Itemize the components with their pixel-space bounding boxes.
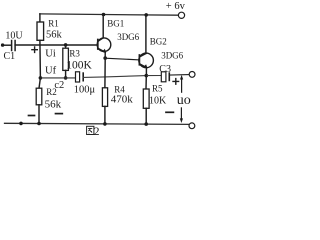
- svg-text:BG2: BG2: [150, 36, 167, 46]
- transistor Q2 emitter with arrow: [140, 64, 147, 68]
- wire bottom ground rail: [5, 123, 190, 124]
- transistor Q1 base bar: [97, 40, 99, 50]
- wire BG2 emitter down to R5: [145, 76, 147, 89]
- svg-text:BG1: BG1: [107, 19, 124, 29]
- svg-text:R2: R2: [46, 87, 57, 97]
- resistor R3: [65, 45, 67, 48]
- polarity plus output: [173, 79, 179, 85]
- svg-text:3DG6: 3DG6: [117, 32, 139, 42]
- svg-text:Ui: Ui: [45, 48, 56, 59]
- svg-text:R1: R1: [48, 19, 59, 29]
- svg-text:uo: uo: [177, 93, 191, 108]
- wire C1 to BG1 base: [15, 44, 98, 46]
- arrow uo up: [181, 79, 183, 92]
- node BG1 emitter junction: [103, 56, 107, 60]
- node ground input terminal dot: [19, 122, 23, 126]
- wire R1 bottom to node M (crosses input wire): [39, 40, 42, 78]
- terminal input dot: [1, 43, 4, 46]
- polarity minus input (left): [29, 115, 35, 117]
- node M dot left end of feedback wire: [39, 76, 43, 80]
- svg-text:56k: 56k: [45, 98, 62, 110]
- svg-text:2: 2: [94, 126, 100, 137]
- transistor Q1 BG1 circle: [97, 38, 111, 52]
- node junction R3 top on base wire: [64, 43, 68, 47]
- polarity minus mid: [56, 113, 63, 115]
- capacitor C3 bar plate: [168, 73, 170, 80]
- wire BG2 emitter node to C3: [146, 75, 161, 77]
- svg-text:+ 6v: + 6v: [166, 1, 186, 12]
- arrow uo down: [180, 108, 182, 119]
- transistor Q1 emitter with arrow: [98, 48, 105, 52]
- node BG2 emitter junction on output wire: [145, 74, 149, 78]
- node junction BG1 collector on rail: [102, 13, 106, 17]
- wire node M to C2: [40, 77, 75, 79]
- transistor Q2 BG2 circle: [139, 53, 154, 68]
- resistor R1: [39, 14, 41, 22]
- wire top supply rail: [40, 14, 179, 15]
- svg-text:Uf: Uf: [45, 65, 57, 76]
- svg-text:R5: R5: [152, 84, 163, 94]
- svg-text:C1: C1: [4, 51, 16, 62]
- node R2 bottom on rail: [37, 122, 41, 126]
- caption 图2 figure label: hand-drawn CJK glyph: [87, 126, 94, 134]
- svg-text:C3: C3: [159, 64, 171, 75]
- svg-text:R3: R3: [69, 48, 80, 58]
- svg-text:100K: 100K: [66, 59, 92, 71]
- wire R2 column: [39, 78, 40, 88]
- terminal +6v: [178, 12, 184, 18]
- transistor Q2 base bar: [138, 55, 140, 65]
- svg-text:3DG6: 3DG6: [161, 50, 183, 60]
- terminal output minus: [189, 123, 195, 129]
- wire C3 to output terminal: [169, 74, 189, 77]
- resistor R4: [102, 88, 107, 107]
- wire input to C1: [3, 44, 11, 46]
- transistor Q2 collector: [140, 53, 146, 56]
- svg-text:100μ: 100μ: [74, 84, 96, 95]
- svg-text:10K: 10K: [149, 96, 167, 107]
- polarity minus output: [166, 111, 173, 113]
- resistor R5: [143, 89, 149, 108]
- polarity plus input: [32, 47, 37, 52]
- resistor R2: [36, 88, 42, 105]
- node R3 bottom junction: [64, 76, 68, 80]
- capacitor C2 box plate: [76, 72, 80, 82]
- capacitor C1: [12, 41, 16, 51]
- wire BG1 emitter down to R4: [104, 58, 106, 88]
- svg-text:470k: 470k: [111, 94, 134, 106]
- svg-text:56k: 56k: [46, 29, 63, 40]
- svg-text:10U: 10U: [5, 30, 23, 41]
- node R4 bottom on rail: [103, 122, 107, 126]
- transistor Q1 collector: [98, 38, 103, 41]
- terminal output plus: [189, 72, 195, 78]
- node junction BG2 collector on rail: [144, 13, 148, 17]
- capacitor C3 box plate: [161, 72, 166, 82]
- wire C2 to BG2 emitter node (crosses R4 line): [83, 76, 146, 78]
- capacitor C2 bar plate: [82, 73, 84, 81]
- wire interstage BG1 emitter to BG2 base: [105, 58, 139, 60]
- node R5 bottom on rail: [144, 122, 148, 126]
